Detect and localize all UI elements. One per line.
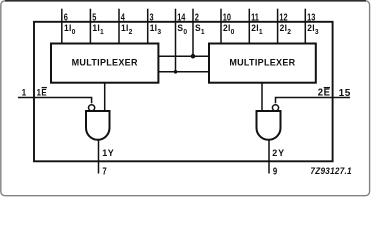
svg-text:15: 15 [339, 88, 351, 99]
svg-text:6: 6 [64, 11, 68, 22]
wire pin 11 input 2I1 [249, 9, 263, 44]
svg-text:7: 7 [102, 165, 106, 176]
wire pin 3 input 1I3 [148, 9, 162, 44]
wire pin 2 select S1 [193, 9, 205, 57]
inverter bubble gate 1 [89, 105, 95, 111]
wire pin 4 input 1I2 [119, 9, 133, 44]
wire pin 6 input 1I0 [62, 9, 76, 44]
svg-text:MULTIPLEXER: MULTIPLEXER [72, 57, 138, 67]
svg-text:3: 3 [150, 11, 154, 22]
wire pin 15 enable 2E [276, 87, 351, 103]
svg-text:9: 9 [273, 165, 277, 176]
svg-text:13: 13 [307, 11, 315, 22]
wire select S1 between multiplexers [158, 55, 209, 57]
wire output 1Y to pin 7 [99, 140, 115, 177]
junction dot S0 [174, 70, 178, 74]
wire pin 1 enable 1E [18, 87, 92, 103]
svg-text:5: 5 [92, 11, 96, 22]
svg-text:4: 4 [121, 11, 125, 22]
svg-text:2: 2 [195, 11, 199, 22]
IC package outline [34, 22, 333, 162]
multiplexer U1 box [51, 44, 158, 83]
svg-text:1E: 1E [37, 87, 48, 98]
svg-text:11: 11 [251, 11, 259, 22]
svg-text:2E: 2E [318, 87, 331, 98]
svg-text:12: 12 [279, 11, 287, 22]
wire pin 10 input 2I0 [221, 9, 235, 44]
AND gate 1 [86, 111, 110, 140]
wire multiplexer U2 output to gate 2 [261, 83, 263, 111]
wire pin 13 input 2I3 [305, 9, 319, 44]
svg-text:14: 14 [177, 11, 185, 22]
wire select S0 between multiplexers [158, 71, 209, 73]
svg-text:1: 1 [22, 87, 26, 98]
svg-text:2Y: 2Y [272, 148, 285, 158]
svg-text:10: 10 [223, 11, 231, 22]
wire pin 14 select S0 [176, 9, 188, 72]
junction dot S1 [191, 54, 196, 59]
svg-text:MULTIPLEXER: MULTIPLEXER [229, 57, 295, 67]
wire output 2Y to pin 9 [269, 140, 285, 177]
AND gate 2 [257, 111, 281, 140]
wire pin 5 input 1I1 [90, 9, 104, 44]
wire pin 12 input 2I2 [278, 9, 292, 44]
svg-text:1Y: 1Y [102, 148, 114, 158]
svg-text:7Z93127.1: 7Z93127.1 [310, 166, 351, 177]
inverter bubble gate 2 [272, 105, 278, 111]
multiplexer U2 box [209, 44, 316, 83]
wire multiplexer U1 output to gate 1 [104, 83, 106, 111]
